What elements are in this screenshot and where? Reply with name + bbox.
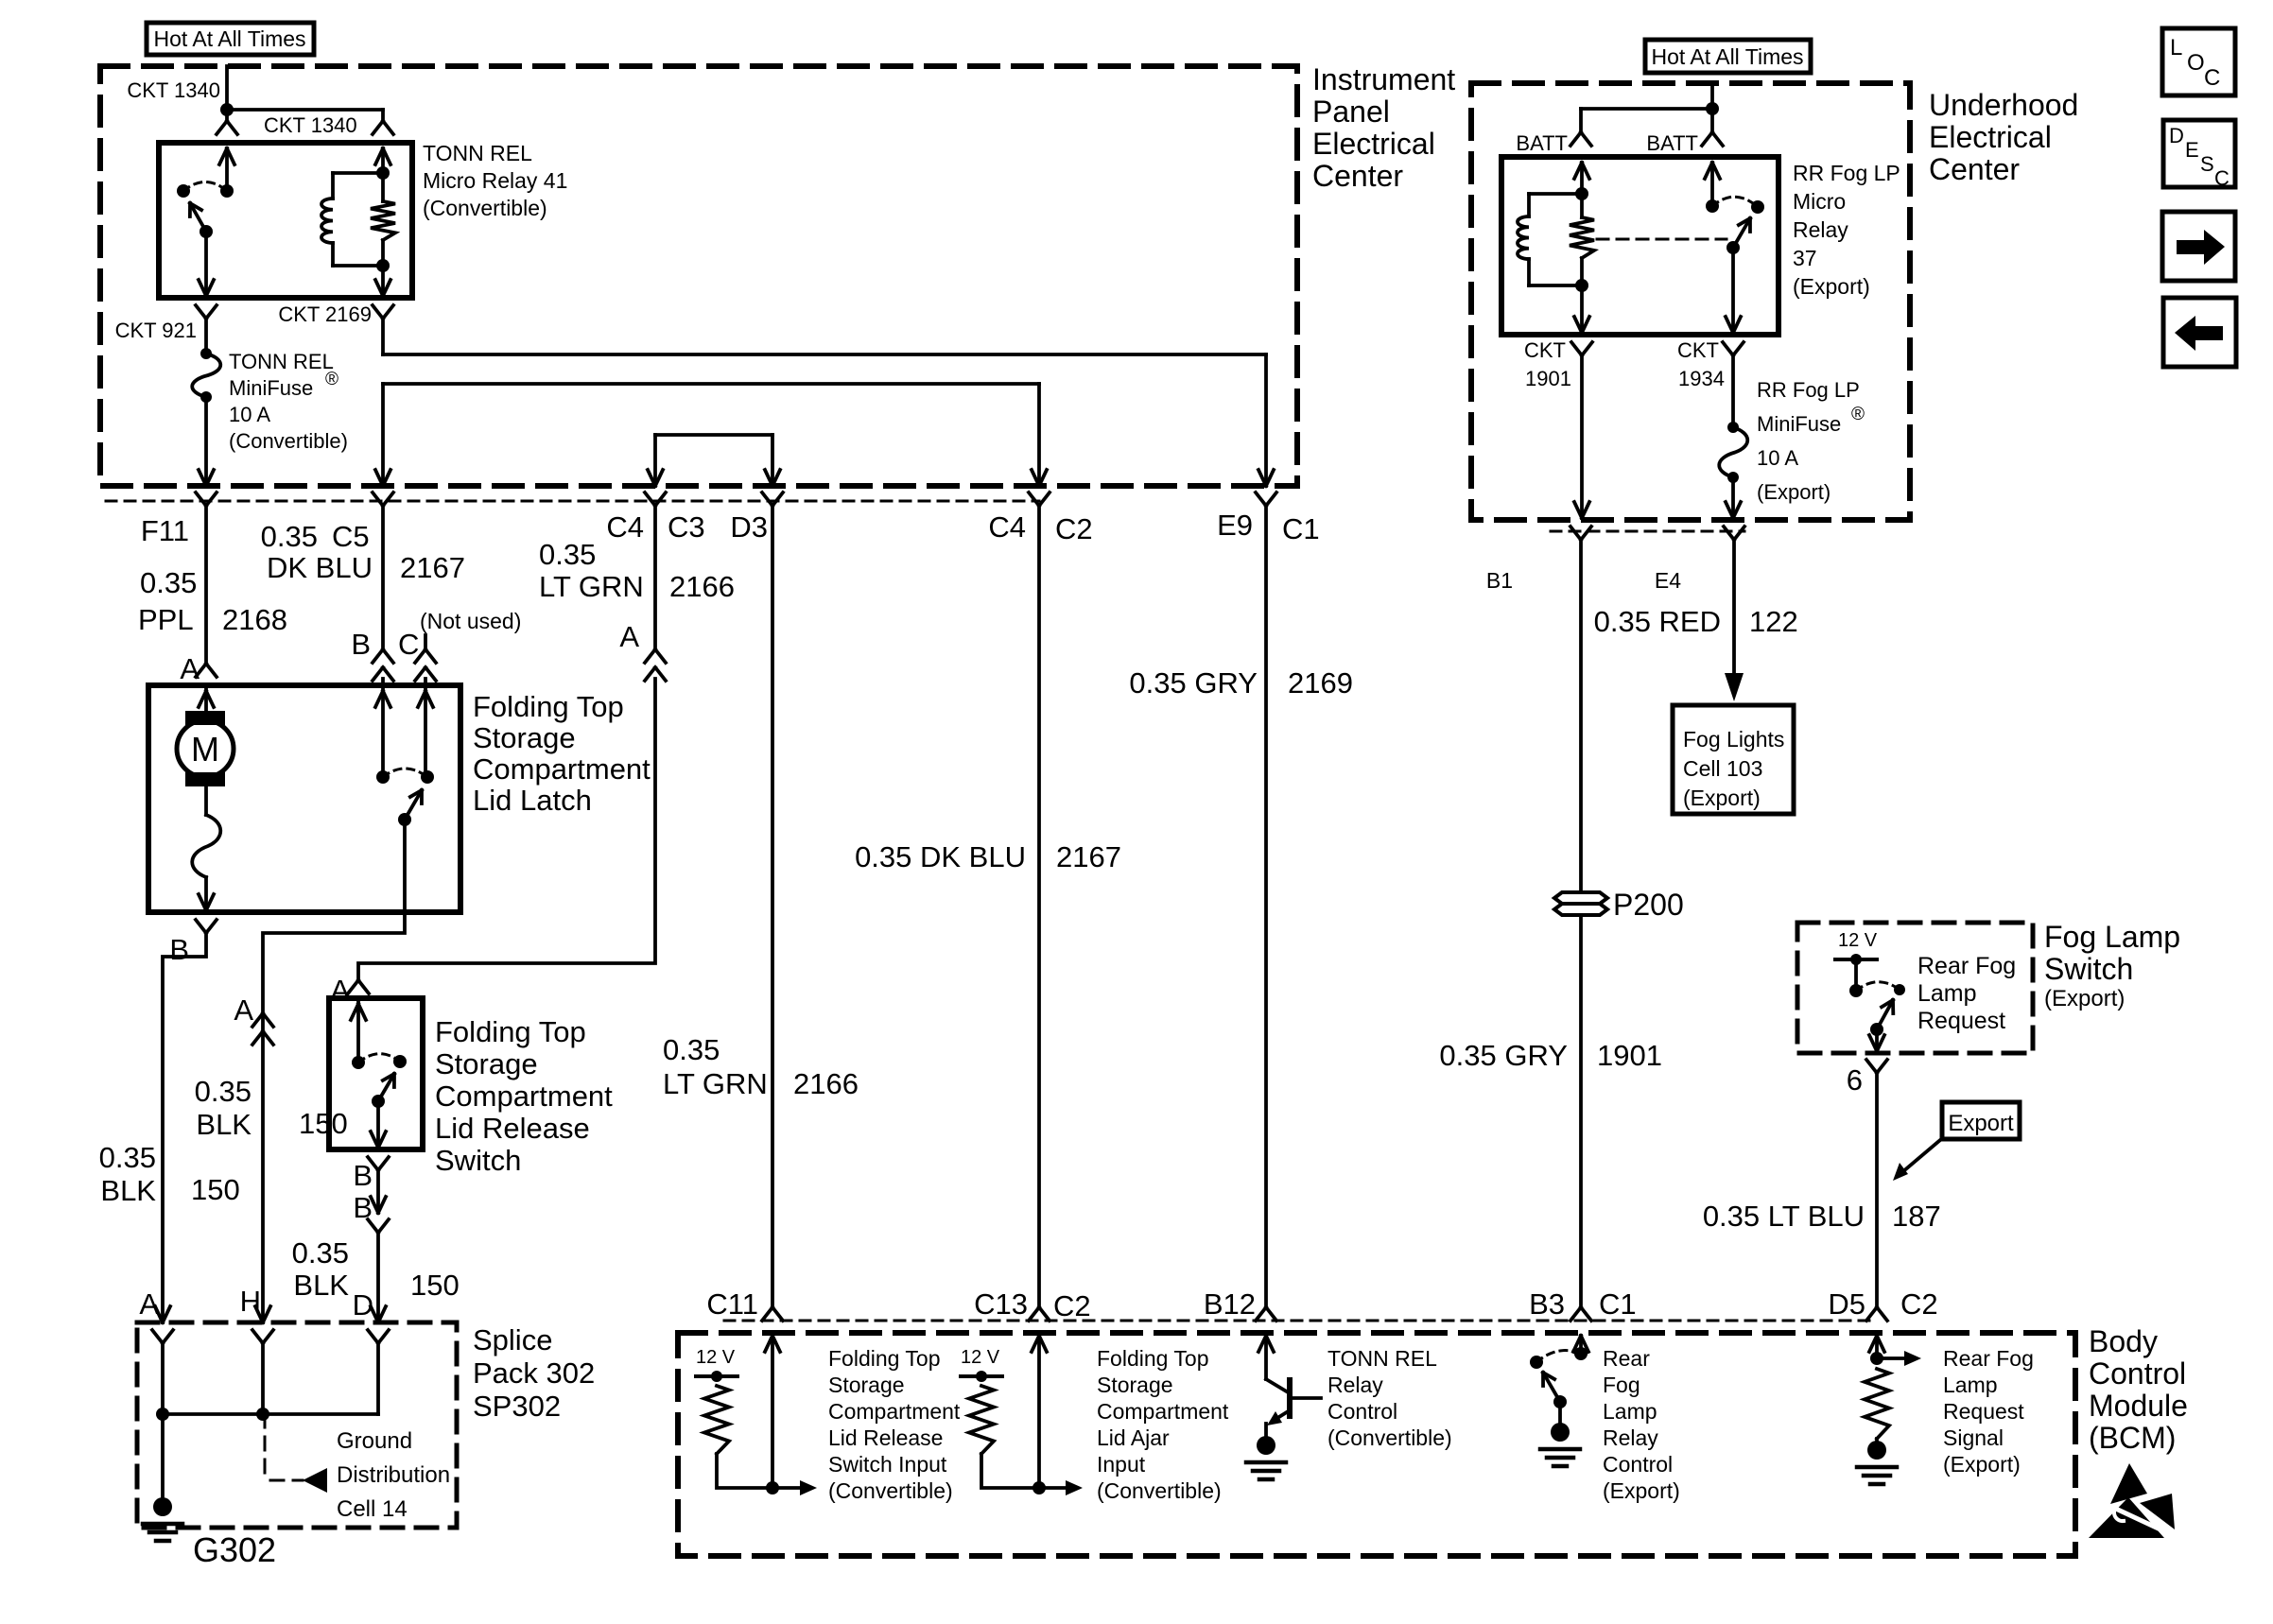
svg-text:150: 150: [191, 1173, 240, 1206]
svg-text:Center: Center: [1929, 152, 2020, 186]
svg-text:C: C: [2214, 166, 2230, 190]
svg-text:(Convertible): (Convertible): [423, 196, 547, 220]
svg-text:12 V: 12 V: [696, 1347, 736, 1368]
svg-text:Cell 14: Cell 14: [337, 1496, 408, 1522]
svg-text:2167: 2167: [1056, 840, 1121, 873]
svg-text:2166: 2166: [793, 1067, 859, 1100]
svg-text:0.35 GRY: 0.35 GRY: [1129, 666, 1258, 700]
svg-text:Control: Control: [2089, 1356, 2186, 1391]
svg-text:L: L: [2170, 35, 2182, 60]
svg-text:Storage: Storage: [1097, 1373, 1173, 1397]
svg-text:0.35: 0.35: [140, 566, 197, 599]
svg-text:B: B: [351, 628, 371, 661]
svg-text:G302: G302: [193, 1530, 276, 1569]
svg-text:H: H: [240, 1285, 261, 1318]
svg-text:150: 150: [299, 1107, 348, 1140]
svg-text:B: B: [353, 1159, 373, 1192]
svg-text:®: ®: [325, 370, 338, 389]
svg-text:A: A: [619, 620, 639, 653]
svg-text:D5: D5: [1828, 1287, 1865, 1321]
svg-text:C2: C2: [1053, 1289, 1091, 1322]
svg-text:12 V: 12 V: [961, 1347, 1000, 1368]
svg-text:0.35: 0.35: [663, 1033, 720, 1066]
svg-text:Electrical: Electrical: [1312, 127, 1435, 161]
svg-text:Lid Release: Lid Release: [828, 1425, 943, 1450]
svg-text:Fog Lamp: Fog Lamp: [2044, 920, 2180, 954]
svg-text:Rear: Rear: [1603, 1346, 1650, 1371]
svg-text:Underhood: Underhood: [1929, 88, 2078, 122]
svg-text:A: A: [234, 993, 253, 1027]
svg-text:A: A: [180, 652, 200, 685]
svg-text:Instrument: Instrument: [1312, 62, 1455, 96]
svg-text:TONN REL: TONN REL: [423, 141, 532, 165]
svg-text:Switch: Switch: [2044, 952, 2133, 986]
svg-text:Fog: Fog: [1603, 1373, 1640, 1397]
svg-text:S: S: [2200, 152, 2214, 176]
svg-text:MiniFuse: MiniFuse: [1757, 412, 1841, 436]
svg-text:Pack 302: Pack 302: [473, 1356, 595, 1390]
svg-text:(Export): (Export): [1603, 1478, 1680, 1503]
svg-text:RR Fog LP: RR Fog LP: [1757, 378, 1860, 402]
svg-text:(Convertible): (Convertible): [828, 1478, 953, 1503]
svg-text:E4: E4: [1655, 568, 1681, 593]
svg-text:C: C: [398, 628, 419, 661]
svg-text:Module: Module: [2089, 1389, 2188, 1423]
svg-text:Hot At All Times: Hot At All Times: [153, 26, 305, 51]
svg-text:CKT 1340: CKT 1340: [127, 78, 220, 102]
svg-text:C4: C4: [606, 510, 644, 544]
svg-text:D: D: [2169, 124, 2184, 147]
svg-text:DK BLU: DK BLU: [267, 551, 373, 584]
svg-text:Storage: Storage: [828, 1373, 905, 1397]
svg-text:(Export): (Export): [1793, 274, 1870, 299]
svg-text:Cell 103: Cell 103: [1683, 756, 1762, 781]
svg-text:150: 150: [410, 1269, 460, 1302]
svg-text:Control: Control: [1327, 1399, 1397, 1424]
svg-text:Rear Fog: Rear Fog: [1943, 1346, 2034, 1371]
svg-text:B1: B1: [1486, 568, 1513, 593]
svg-text:Compartment: Compartment: [435, 1080, 613, 1113]
svg-text:BLK: BLK: [100, 1174, 156, 1207]
svg-text:Folding Top: Folding Top: [435, 1015, 586, 1048]
svg-text:(Convertible): (Convertible): [1327, 1425, 1452, 1450]
svg-text:Panel: Panel: [1312, 95, 1390, 129]
svg-text:Lamp: Lamp: [1603, 1399, 1657, 1424]
svg-text:2168: 2168: [222, 603, 287, 636]
svg-text:C1: C1: [1599, 1287, 1637, 1321]
svg-text:Control: Control: [1603, 1452, 1673, 1477]
svg-text:C11: C11: [706, 1287, 758, 1321]
svg-text:Body: Body: [2089, 1324, 2158, 1358]
svg-text:Storage: Storage: [435, 1047, 538, 1080]
svg-text:CKT 2169: CKT 2169: [278, 302, 372, 326]
svg-text:1901: 1901: [1525, 367, 1571, 390]
svg-text:Fog Lights: Fog Lights: [1683, 727, 1784, 752]
svg-text:Ground: Ground: [337, 1428, 412, 1454]
svg-text:37: 37: [1793, 246, 1817, 270]
svg-text:Hot At All Times: Hot At All Times: [1651, 44, 1803, 69]
svg-text:C4: C4: [988, 510, 1026, 544]
svg-text:6: 6: [1847, 1063, 1863, 1097]
svg-text:Rear Fog: Rear Fog: [1917, 953, 2016, 979]
svg-text:0.35: 0.35: [539, 538, 596, 571]
svg-text:1901: 1901: [1597, 1039, 1662, 1072]
svg-text:(Export): (Export): [2044, 986, 2125, 1011]
svg-text:Electrical: Electrical: [1929, 120, 2052, 154]
svg-text:Compartment: Compartment: [828, 1399, 961, 1424]
svg-text:0.35: 0.35: [195, 1075, 252, 1108]
svg-text:CKT: CKT: [1524, 338, 1566, 362]
svg-text:0.35: 0.35: [99, 1141, 156, 1174]
svg-text:CKT: CKT: [1677, 338, 1719, 362]
svg-text:Micro Relay 41: Micro Relay 41: [423, 168, 567, 193]
svg-text:10 A: 10 A: [229, 403, 270, 426]
svg-text:C5: C5: [332, 520, 370, 553]
svg-text:Request: Request: [1917, 1008, 2005, 1034]
svg-text:TONN REL: TONN REL: [1327, 1346, 1437, 1371]
svg-text:BATT: BATT: [1516, 131, 1568, 155]
svg-text:Compartment: Compartment: [473, 752, 651, 786]
svg-text:BLK: BLK: [293, 1269, 349, 1302]
svg-text:Distribution: Distribution: [337, 1462, 450, 1488]
svg-text:A: A: [139, 1287, 159, 1321]
svg-text:2166: 2166: [669, 570, 735, 603]
svg-text:Switch: Switch: [435, 1144, 521, 1177]
svg-text:Lid Release: Lid Release: [435, 1112, 590, 1145]
svg-text:RR Fog LP: RR Fog LP: [1793, 161, 1900, 185]
svg-text:A: A: [330, 974, 350, 1007]
svg-text:Lid Ajar: Lid Ajar: [1097, 1425, 1170, 1450]
svg-text:C13: C13: [974, 1287, 1028, 1321]
svg-text:Lid Latch: Lid Latch: [473, 784, 592, 817]
svg-text:Folding Top: Folding Top: [828, 1346, 941, 1371]
svg-text:12 V: 12 V: [1838, 930, 1878, 951]
svg-text:Folding Top: Folding Top: [1097, 1346, 1209, 1371]
svg-text:LT GRN: LT GRN: [539, 570, 644, 603]
svg-text:B: B: [169, 933, 189, 966]
svg-text:Input: Input: [1097, 1452, 1146, 1477]
svg-text:0.35 GRY: 0.35 GRY: [1439, 1039, 1568, 1072]
svg-text:0.35: 0.35: [292, 1236, 349, 1270]
svg-text:Lamp: Lamp: [1917, 980, 1977, 1007]
svg-text:(Convertible): (Convertible): [1097, 1478, 1222, 1503]
svg-text:Request: Request: [1943, 1399, 2024, 1424]
svg-text:1934: 1934: [1678, 367, 1725, 390]
svg-text:C2: C2: [1055, 512, 1093, 545]
svg-text:B12: B12: [1204, 1287, 1256, 1321]
svg-text:(Export): (Export): [1683, 786, 1761, 810]
svg-text:2167: 2167: [400, 551, 465, 584]
svg-text:E9: E9: [1217, 509, 1253, 542]
svg-text:C1: C1: [1282, 512, 1320, 545]
svg-text:(BCM): (BCM): [2089, 1421, 2176, 1455]
svg-text:0.35 DK BLU: 0.35 DK BLU: [855, 840, 1026, 873]
svg-text:Export: Export: [1948, 1111, 2014, 1136]
svg-text:BATT: BATT: [1646, 131, 1698, 155]
svg-text:Relay: Relay: [1793, 217, 1848, 242]
svg-text:2169: 2169: [1288, 666, 1353, 700]
svg-text:Switch Input: Switch Input: [828, 1452, 947, 1477]
svg-text:CKT 1340: CKT 1340: [264, 113, 357, 137]
svg-text:D3: D3: [730, 510, 768, 544]
svg-text:0.35 LT BLU: 0.35 LT BLU: [1703, 1200, 1865, 1233]
svg-text:122: 122: [1749, 605, 1798, 638]
svg-text:0.35: 0.35: [261, 520, 318, 553]
svg-text:E: E: [2185, 138, 2199, 162]
svg-text:187: 187: [1892, 1200, 1941, 1233]
svg-text:LT GRN: LT GRN: [663, 1067, 768, 1100]
svg-text:BLK: BLK: [196, 1108, 252, 1141]
svg-text:Center: Center: [1312, 159, 1403, 193]
svg-text:10 A: 10 A: [1757, 446, 1798, 470]
svg-text:Splice: Splice: [473, 1323, 552, 1356]
svg-text:Signal: Signal: [1943, 1425, 2004, 1450]
svg-text:M: M: [191, 730, 219, 769]
svg-text:C3: C3: [668, 510, 705, 544]
svg-text:TONN REL: TONN REL: [229, 350, 334, 373]
svg-text:B3: B3: [1529, 1287, 1565, 1321]
svg-text:(Not used): (Not used): [420, 609, 521, 633]
svg-text:Relay: Relay: [1603, 1425, 1658, 1450]
svg-text:(Convertible): (Convertible): [229, 429, 348, 453]
svg-text:C: C: [2204, 65, 2220, 91]
svg-text:Storage: Storage: [473, 721, 576, 754]
svg-text:O: O: [2187, 50, 2205, 76]
svg-text:F11: F11: [141, 514, 189, 547]
svg-text:SP302: SP302: [473, 1390, 561, 1423]
svg-text:MiniFuse: MiniFuse: [229, 376, 313, 400]
svg-text:C2: C2: [1900, 1287, 1938, 1321]
svg-text:Folding Top: Folding Top: [473, 690, 624, 723]
svg-text:0.35 RED: 0.35 RED: [1594, 605, 1721, 638]
svg-text:PPL: PPL: [138, 603, 194, 636]
svg-text:Micro: Micro: [1793, 189, 1846, 214]
svg-text:(Export): (Export): [1757, 480, 1831, 504]
svg-text:®: ®: [1851, 405, 1865, 424]
svg-text:Relay: Relay: [1327, 1373, 1383, 1397]
svg-text:P200: P200: [1613, 888, 1684, 922]
svg-text:Compartment: Compartment: [1097, 1399, 1229, 1424]
svg-text:(Export): (Export): [1943, 1452, 2021, 1477]
svg-text:CKT 921: CKT 921: [115, 319, 197, 342]
svg-text:Lamp: Lamp: [1943, 1373, 1998, 1397]
